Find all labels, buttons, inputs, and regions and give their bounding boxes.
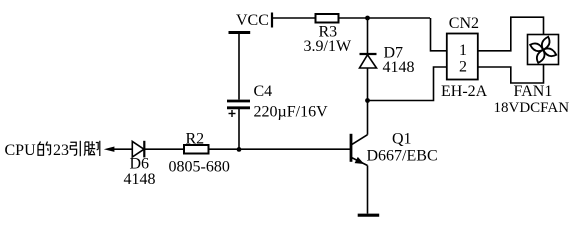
capacitor C4 top plate <box>227 100 250 103</box>
glyph 引 <box>70 141 80 156</box>
capacitor C4 plus sign <box>229 110 236 117</box>
svg-text:18VDCFAN: 18VDCFAN <box>494 100 570 116</box>
wire C4 bottom to base node <box>238 109 240 149</box>
svg-text:2: 2 <box>459 59 467 76</box>
VCC rail bar <box>229 31 251 34</box>
transistor Q1 emitter arrow <box>355 157 365 164</box>
fan FAN1 box <box>528 35 559 65</box>
VCC terminal bar <box>271 13 273 28</box>
connector CN2 box <box>447 34 478 80</box>
svg-text:D667/EBC: D667/EBC <box>367 148 438 165</box>
svg-text:EH-2A: EH-2A <box>441 83 488 100</box>
diode D7 triangle <box>360 55 377 68</box>
wire VCC rail to C4 top <box>238 34 240 100</box>
svg-text:R2: R2 <box>186 131 205 148</box>
svg-text:CN2: CN2 <box>449 15 479 32</box>
diode D7 cathode bar <box>360 53 377 55</box>
svg-text:220µF/16V: 220µF/16V <box>254 104 329 121</box>
junction node D7/collector/pin2 <box>365 98 370 103</box>
wire D6 to R2 <box>144 148 184 150</box>
wire CN2 pin1 to FAN1 top <box>478 17 544 51</box>
wire R2 to Q1 base <box>209 148 351 150</box>
svg-text:C4: C4 <box>254 83 273 100</box>
svg-text:3.9/1W: 3.9/1W <box>304 38 352 55</box>
svg-text:Q1: Q1 <box>392 131 412 148</box>
svg-text:FAN1: FAN1 <box>514 83 553 100</box>
svg-text:1: 1 <box>459 42 467 59</box>
resistor R3 <box>316 14 339 23</box>
svg-text:4148: 4148 <box>124 171 156 188</box>
diode D6 cathode bar <box>143 141 145 158</box>
wire arrow to D6 <box>112 148 132 150</box>
transistor Q1 emitter stroke <box>352 158 368 166</box>
glyph 脚 <box>84 141 100 156</box>
wire junction to Q1 collector <box>367 101 369 135</box>
wire VCC terminal to R3 <box>272 17 316 19</box>
wire R3 to corner <box>339 17 431 19</box>
junction node R3/D7 <box>365 16 370 21</box>
ground <box>358 214 380 217</box>
transistor Q1 base bar <box>350 134 353 162</box>
diode D6 triangle <box>132 141 144 157</box>
wire junction to CN2 pin2 <box>368 67 447 101</box>
wire emitter to ground <box>367 166 369 214</box>
transistor Q1 collector stroke <box>352 135 368 145</box>
node CPU pin 23 label <box>5 141 100 159</box>
svg-text:VCC: VCC <box>236 12 269 29</box>
svg-text:CPU: CPU <box>5 142 37 159</box>
svg-text:0805-680: 0805-680 <box>169 159 230 176</box>
wire junction to D7 cathode <box>367 18 369 54</box>
resistor R2 <box>184 145 209 154</box>
svg-text:23: 23 <box>53 142 69 159</box>
junction node C4/base <box>237 147 242 152</box>
svg-text:4148: 4148 <box>383 59 415 76</box>
wire corner down to CN2 pin1 <box>431 18 447 51</box>
wire D7 anode to junction <box>367 68 369 101</box>
svg-text:D6: D6 <box>130 156 150 173</box>
glyph 的 <box>38 142 51 156</box>
arrowhead to CPU pin <box>104 147 115 152</box>
capacitor C4 bottom plate <box>227 106 250 109</box>
wire CN2 pin2 to FAN1 bottom <box>478 65 544 84</box>
fan FAN1 blades <box>529 36 557 64</box>
